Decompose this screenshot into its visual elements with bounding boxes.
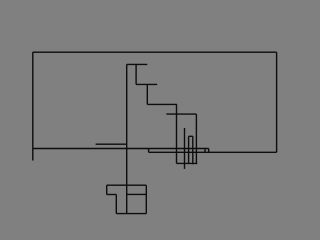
wire mid-stub (96, 143, 127, 145)
wire rect-bottom (149, 151, 277, 153)
wire main-vertical (126, 64, 128, 213)
wire block-notch-v (115, 195, 117, 214)
node box-left (204, 149, 206, 153)
wire block-notch-h (107, 194, 117, 196)
wire block-divider (127, 193, 147, 195)
node box-right (208, 149, 210, 153)
wire rect-right (276, 52, 278, 152)
wire step-vertical (148, 149, 150, 153)
wire stair-h3 (166, 113, 196, 115)
wire stair-v0 (135, 64, 137, 84)
wire stair-h2 (147, 103, 177, 105)
wire block-right (145, 185, 147, 213)
wire stair-h0 (127, 63, 148, 65)
wire drop-a (184, 128, 186, 169)
wire cluster-bottom (177, 162, 198, 164)
wire stair-h1 (136, 83, 157, 85)
wire rect-left (32, 52, 34, 160)
wire stair-v3 (195, 114, 197, 163)
wire pi-bar (189, 135, 193, 137)
wire pi-left-leg (188, 136, 190, 164)
wire block-top (107, 184, 147, 186)
wire pi-right-leg (192, 136, 194, 164)
wire stair-v1 (146, 84, 148, 104)
wire bus-horizontal (33, 148, 209, 150)
wire stair-v2 (176, 104, 178, 163)
wire block-left (106, 185, 108, 194)
wire rect-top (33, 51, 277, 53)
wire block-bottom (116, 213, 146, 215)
